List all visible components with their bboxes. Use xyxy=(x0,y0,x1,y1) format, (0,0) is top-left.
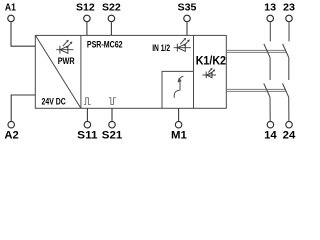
wire M1 xyxy=(178,108,180,121)
terminal 13 xyxy=(267,15,274,22)
wire S22 xyxy=(110,22,112,35)
feedback box xyxy=(162,71,194,108)
pulse symbol S11 xyxy=(84,98,91,105)
LED PWR xyxy=(56,40,73,54)
terminal 23 xyxy=(286,15,293,22)
wire ch1 to 14 xyxy=(269,97,271,121)
svg-text:A1: A1 xyxy=(5,2,16,13)
svg-text:M1: M1 xyxy=(171,130,187,142)
pulse symbol S21 xyxy=(109,98,116,105)
wire S11 xyxy=(86,108,88,121)
feedback contact icon xyxy=(174,76,183,98)
terminal S21 xyxy=(109,121,116,128)
power section divider xyxy=(80,35,82,108)
terminal S11 xyxy=(84,121,91,128)
terminal S12 xyxy=(84,15,91,22)
svg-text:S35: S35 xyxy=(178,2,197,13)
svg-text:S11: S11 xyxy=(77,130,97,142)
LED K1/K2 xyxy=(203,68,217,78)
mechanical linkage K2 xyxy=(226,89,286,91)
svg-text:PSR-MC62: PSR-MC62 xyxy=(87,39,123,49)
contact K1 ch1 blade xyxy=(264,44,270,58)
svg-text:S22: S22 xyxy=(102,2,121,13)
wire ch2 mid xyxy=(288,58,290,80)
terminal M1 xyxy=(175,121,182,128)
wire S12 xyxy=(86,22,88,35)
wire ch2 to 24 xyxy=(288,97,290,121)
svg-text:13: 13 xyxy=(264,2,276,13)
svg-text:S12: S12 xyxy=(76,2,95,13)
svg-text:24: 24 xyxy=(283,130,296,142)
terminal 24 xyxy=(286,121,293,128)
svg-text:S21: S21 xyxy=(102,130,122,142)
terminal A2 xyxy=(8,121,15,128)
svg-text:IN 1/2: IN 1/2 xyxy=(152,43,170,53)
wire 23 lead xyxy=(288,22,290,41)
LED IN xyxy=(174,38,191,52)
contact K2 ch2 blade xyxy=(283,83,289,97)
wire ch1 mid xyxy=(269,58,271,80)
svg-text:A2: A2 xyxy=(4,130,18,142)
module PSR-MC62 outline xyxy=(35,35,226,108)
contact K1 ch2 blade xyxy=(283,44,289,58)
power section diagonal xyxy=(36,36,81,108)
mechanical linkage K1 xyxy=(226,50,286,52)
svg-text:PWR: PWR xyxy=(58,56,75,66)
terminal 14 xyxy=(267,121,274,128)
K1/K2 section divider xyxy=(193,35,195,108)
terminal A1 xyxy=(8,15,15,22)
wire A2 xyxy=(11,95,35,121)
wire A1 xyxy=(11,22,35,46)
svg-text:14: 14 xyxy=(264,130,277,142)
svg-text:23: 23 xyxy=(283,2,295,13)
terminal S35 xyxy=(184,15,191,22)
svg-text:24V DC: 24V DC xyxy=(42,96,66,107)
wire S35 xyxy=(186,22,188,35)
wire S21 xyxy=(111,108,113,121)
contact K2 ch1 blade xyxy=(264,83,270,97)
wire 13 lead xyxy=(269,22,271,41)
terminal S22 xyxy=(108,15,115,22)
svg-text:K1/K2: K1/K2 xyxy=(196,55,226,68)
